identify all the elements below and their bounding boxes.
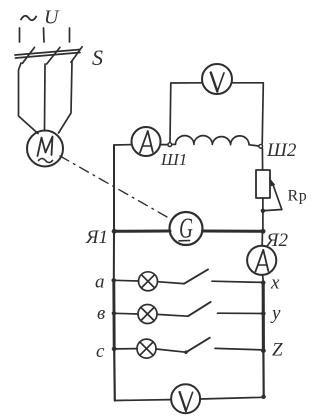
wire switch to motor phase 1 <box>19 63 39 134</box>
wire Ш2 to rheostat <box>261 148 263 170</box>
rheostat Rp body <box>256 170 270 198</box>
wire switch to motor phase 3 <box>59 61 73 133</box>
label Rp <box>288 188 308 205</box>
label Ш2 <box>266 140 297 161</box>
svg-text:x: x <box>270 273 280 294</box>
wire switch SA3 to node z <box>215 348 263 350</box>
svg-text:Ш2: Ш2 <box>266 140 297 161</box>
wire c to lamp HL3 <box>114 348 137 350</box>
wire wiper to junction <box>265 210 282 211</box>
wire voltmeter V2 to right bus <box>201 397 264 399</box>
label Я1 <box>85 227 108 248</box>
wire a to lamp HL1 <box>114 279 139 282</box>
node bottom right corner <box>262 395 266 399</box>
label Ш1 <box>160 150 187 169</box>
switch S blade 3 <box>71 47 82 63</box>
generator G1 <box>170 212 203 245</box>
lamp HL2 <box>138 305 157 324</box>
node в <box>112 311 116 315</box>
label a <box>95 272 105 293</box>
node c <box>112 347 116 351</box>
node Ш2 terminal <box>259 144 263 148</box>
wire voltmeter loop right <box>232 83 263 144</box>
wire bus to ammeter A1 <box>114 144 132 146</box>
wire switch SA1 to node x <box>212 281 263 282</box>
voltmeter V1 <box>202 64 232 94</box>
wire right bus lower <box>262 283 265 351</box>
voltmeter V2 <box>171 384 200 413</box>
label ~U (supply) <box>21 7 60 29</box>
switch SA3 pivot dot <box>184 351 187 354</box>
label S <box>92 45 103 70</box>
ammeter A2 (armature) <box>247 246 276 275</box>
wire bottom left to voltmeter V2 <box>115 399 171 402</box>
wire lamp HL3 to switch SA3 <box>156 349 186 352</box>
node a <box>112 278 116 282</box>
svg-text:Я1: Я1 <box>85 227 108 248</box>
svg-text:Z: Z <box>272 340 283 361</box>
supply terminal L3 <box>69 28 71 42</box>
wire Я2 to ammeter A2 <box>261 233 263 246</box>
switch SA1 blade <box>184 269 208 283</box>
wire lamp HL2 to switch SA2 <box>157 314 188 316</box>
motor M1 <box>27 131 63 167</box>
node rheostat junction <box>261 209 265 213</box>
label в <box>97 303 105 324</box>
wire switch SA2 to node y <box>218 312 263 314</box>
svg-text:c: c <box>96 341 105 362</box>
switch SA3 blade <box>186 338 210 353</box>
mechanical coupling dash-dot <box>60 156 172 220</box>
svg-text:Rp: Rp <box>288 188 308 205</box>
node y <box>261 311 265 315</box>
lamp HL3 <box>137 339 156 358</box>
switch S blade 1 <box>22 47 34 63</box>
wire armature left (thick) <box>114 230 170 233</box>
lamp HL1 <box>139 272 158 291</box>
svg-text:Ш1: Ш1 <box>160 150 187 169</box>
supply terminal L1 <box>19 28 21 42</box>
wire switch to motor phase 2 <box>44 64 47 130</box>
wire rheostat to node Я2 <box>262 198 264 231</box>
wire armature right (thick) <box>203 230 264 233</box>
svg-text:U: U <box>44 7 60 29</box>
svg-text:S: S <box>92 45 103 70</box>
node Я2 <box>261 229 266 234</box>
wire A2 to node x <box>262 275 265 281</box>
label x <box>270 273 280 294</box>
switch S linkage bar <box>15 50 80 59</box>
wire voltmeter loop left <box>170 83 202 143</box>
supply terminal L2 <box>43 28 46 42</box>
svg-text:y: y <box>270 303 281 324</box>
switch S blade 2 <box>47 47 60 64</box>
ammeter A1 (field) <box>132 127 161 156</box>
wire в to lamp HL2 <box>114 312 138 315</box>
svg-text:в: в <box>97 303 105 324</box>
svg-text:a: a <box>95 272 105 293</box>
node Ш1 terminal <box>168 143 172 147</box>
inductor shunt winding <box>172 136 259 146</box>
label z <box>272 340 283 361</box>
wire lamp HL1 to switch SA1 <box>158 282 184 284</box>
label c <box>96 341 105 362</box>
node Я1 <box>112 229 117 234</box>
label Я2 <box>265 230 288 251</box>
node z <box>261 349 265 353</box>
rheostat Rp wiper arrow <box>269 178 282 209</box>
wire left bus <box>113 145 115 280</box>
wire A1 to node Ш1 <box>161 144 168 146</box>
node x <box>261 281 265 285</box>
switch SA2 blade <box>188 302 211 316</box>
label y <box>270 303 281 324</box>
